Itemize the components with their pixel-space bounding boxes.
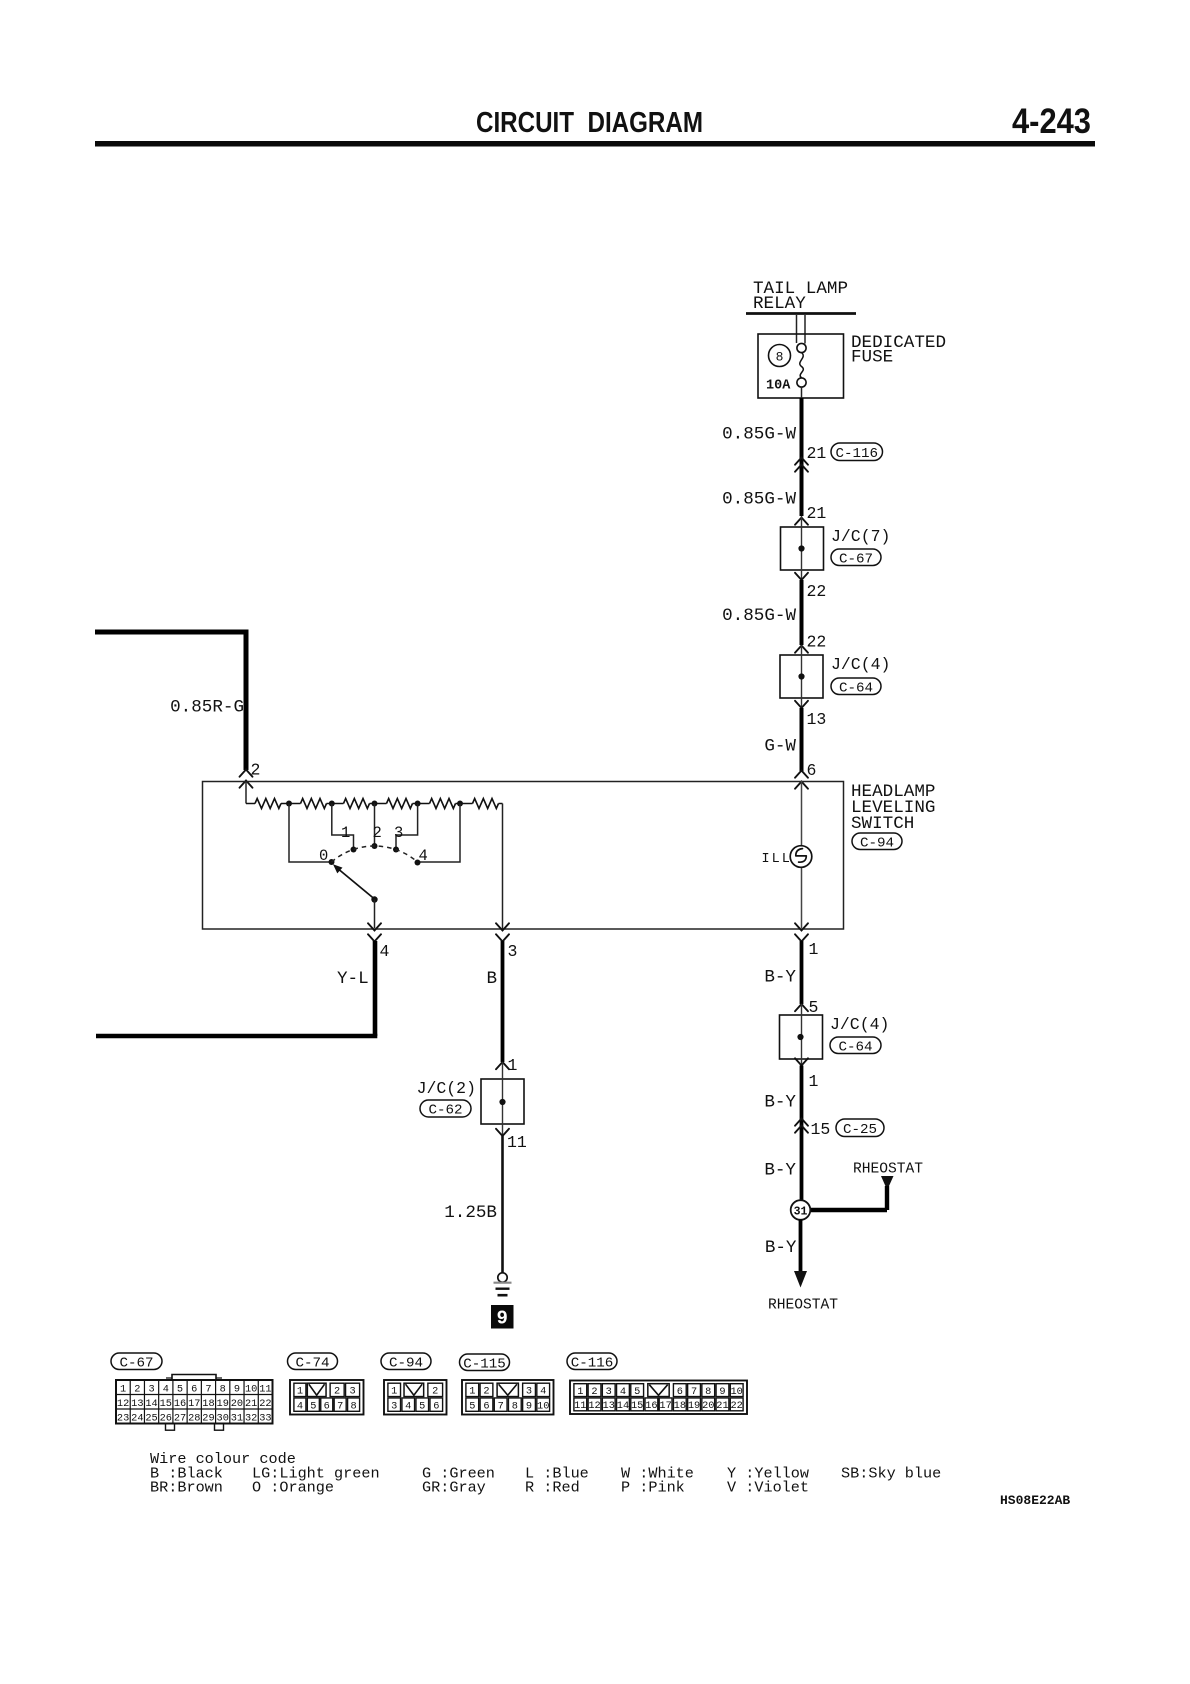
svg-text:J/C(7): J/C(7) bbox=[831, 527, 890, 546]
junction chevron into J/C(4) second bbox=[795, 1004, 808, 1011]
svg-text:1: 1 bbox=[469, 1386, 475, 1398]
svg-text:7: 7 bbox=[205, 1383, 211, 1395]
wire B-Y below switch bbox=[800, 941, 804, 1004]
svg-text:4: 4 bbox=[380, 942, 390, 961]
node dot 5 bbox=[457, 801, 463, 807]
wire B down bbox=[501, 941, 505, 1062]
rheostat feed arrow bbox=[809, 1176, 894, 1210]
junction chevron into J/C(4) bbox=[795, 646, 808, 653]
splice circle 31 bbox=[791, 1200, 811, 1220]
contact 1 bbox=[341, 824, 357, 853]
svg-text:8: 8 bbox=[350, 1400, 356, 1412]
svg-text:13: 13 bbox=[807, 710, 827, 729]
svg-text:3: 3 bbox=[148, 1383, 154, 1395]
svg-text:O :Orange: O :Orange bbox=[252, 1479, 334, 1497]
svg-text:14: 14 bbox=[145, 1398, 157, 1410]
svg-text:B-Y: B-Y bbox=[765, 1238, 797, 1258]
svg-text:8: 8 bbox=[220, 1383, 226, 1395]
svg-text:C-94: C-94 bbox=[860, 835, 894, 851]
wire node1 to contact 0 bbox=[289, 804, 329, 863]
pin 4 exit chevrons bbox=[368, 923, 381, 941]
wire node3 to contact 2 bbox=[374, 804, 376, 845]
svg-text:25: 25 bbox=[145, 1412, 157, 1424]
svg-text:1: 1 bbox=[508, 1056, 518, 1075]
svg-text:8: 8 bbox=[512, 1400, 518, 1412]
junction chevron into J/C(2) bbox=[496, 1062, 509, 1069]
svg-text:29: 29 bbox=[202, 1412, 214, 1424]
svg-text:2: 2 bbox=[134, 1383, 140, 1395]
wire node5 to contact 4 bbox=[420, 804, 460, 863]
dashed selector arc bbox=[332, 846, 418, 862]
pin 6 entry chevrons bbox=[795, 771, 808, 789]
pin 2 entry chevrons bbox=[240, 770, 253, 788]
tail lamp relay label bbox=[753, 279, 848, 314]
junction chevron out of J/C(7) bbox=[795, 573, 808, 580]
svg-text:ILL: ILL bbox=[762, 852, 792, 867]
svg-text:6: 6 bbox=[191, 1383, 197, 1395]
in-line connector C-116 double chevron bbox=[795, 458, 808, 472]
svg-text:18: 18 bbox=[202, 1398, 214, 1410]
svg-text:P :Pink: P :Pink bbox=[621, 1479, 685, 1497]
connector tag C-62 bbox=[420, 1100, 471, 1119]
svg-text:RELAY: RELAY bbox=[753, 294, 806, 314]
svg-text:26: 26 bbox=[160, 1412, 172, 1424]
svg-text:C-25: C-25 bbox=[843, 1122, 877, 1138]
svg-text:6: 6 bbox=[324, 1400, 330, 1412]
svg-text:6: 6 bbox=[483, 1400, 489, 1412]
svg-text:8: 8 bbox=[776, 350, 784, 365]
connector tag C-64 bbox=[831, 678, 881, 696]
contact 3 bbox=[393, 824, 403, 853]
svg-text:J/C(2): J/C(2) bbox=[417, 1079, 476, 1098]
svg-text:B-Y: B-Y bbox=[764, 968, 796, 988]
wire J/C(4) to switch, G-W bbox=[800, 708, 804, 771]
svg-text:B-Y: B-Y bbox=[764, 1093, 796, 1113]
svg-text:22: 22 bbox=[807, 633, 827, 652]
wire pin6 through ILL lamp bbox=[801, 781, 803, 928]
resistor R4 bbox=[387, 799, 430, 809]
svg-text:20: 20 bbox=[231, 1398, 243, 1410]
svg-text:15: 15 bbox=[160, 1398, 172, 1410]
connector tag C-25 bbox=[836, 1119, 884, 1138]
headlamp leveling switch box bbox=[203, 782, 844, 930]
wiper pivot dot bbox=[371, 896, 377, 902]
junction chevron out of J/C(2) bbox=[496, 1129, 509, 1136]
wire node2 to contact 1 bbox=[332, 804, 354, 848]
svg-text:4: 4 bbox=[620, 1386, 626, 1398]
dedicated fuse box bbox=[758, 334, 844, 398]
svg-text:1: 1 bbox=[391, 1386, 397, 1398]
svg-text:5: 5 bbox=[469, 1400, 475, 1412]
svg-text:15: 15 bbox=[811, 1120, 831, 1139]
connector C-94 pinout bbox=[381, 1353, 447, 1415]
svg-text:9: 9 bbox=[496, 1308, 507, 1330]
svg-text:C-116: C-116 bbox=[571, 1355, 614, 1371]
svg-text:21: 21 bbox=[807, 504, 827, 523]
svg-text:17: 17 bbox=[188, 1398, 200, 1410]
pin 1 exit chevrons bbox=[795, 923, 808, 941]
relay pin stub right bbox=[804, 315, 806, 344]
svg-text:21: 21 bbox=[716, 1400, 728, 1412]
svg-text:22: 22 bbox=[731, 1400, 743, 1412]
svg-text:B: B bbox=[487, 969, 498, 989]
svg-text:22: 22 bbox=[259, 1398, 271, 1410]
wire Y-L to left bbox=[96, 941, 377, 1036]
svg-text:0: 0 bbox=[319, 847, 328, 865]
svg-text:8: 8 bbox=[705, 1386, 711, 1398]
wire 0.85R-G feed from left bbox=[95, 630, 249, 771]
svg-text:31: 31 bbox=[231, 1412, 243, 1424]
junction chevron out of J/C(4) bbox=[795, 701, 808, 708]
svg-text:HS08E22AB: HS08E22AB bbox=[1000, 1493, 1070, 1508]
svg-text:11: 11 bbox=[259, 1383, 271, 1395]
svg-text:31: 31 bbox=[794, 1206, 808, 1219]
wiper arm with arrowhead bbox=[333, 864, 375, 899]
svg-text:16: 16 bbox=[174, 1398, 186, 1410]
svg-text:3: 3 bbox=[508, 942, 518, 961]
svg-text:7: 7 bbox=[337, 1400, 343, 1412]
svg-text:3: 3 bbox=[394, 824, 403, 842]
svg-text:22: 22 bbox=[807, 582, 827, 601]
svg-text:2: 2 bbox=[432, 1386, 438, 1398]
svg-text:10: 10 bbox=[245, 1383, 257, 1395]
wire B-Y to C-25 bbox=[800, 1066, 804, 1202]
junction connector J/C(7) box bbox=[781, 516, 824, 580]
svg-text:12: 12 bbox=[117, 1398, 129, 1410]
svg-text:J/C(4): J/C(4) bbox=[830, 1015, 889, 1034]
node dot 4 bbox=[415, 801, 421, 807]
svg-text:C-64: C-64 bbox=[839, 680, 873, 696]
svg-text:C-67: C-67 bbox=[119, 1355, 153, 1371]
svg-text:SWITCH: SWITCH bbox=[851, 814, 914, 834]
svg-text:B-Y: B-Y bbox=[764, 1161, 796, 1181]
svg-text:15: 15 bbox=[631, 1400, 643, 1412]
svg-text:1: 1 bbox=[341, 824, 350, 842]
svg-text:33: 33 bbox=[259, 1412, 271, 1424]
svg-text:9: 9 bbox=[719, 1386, 725, 1398]
svg-text:9: 9 bbox=[234, 1383, 240, 1395]
node dot 1 bbox=[286, 801, 292, 807]
svg-text:20: 20 bbox=[702, 1400, 714, 1412]
svg-text:28: 28 bbox=[188, 1412, 200, 1424]
svg-text:24: 24 bbox=[131, 1412, 143, 1424]
connector C-67 pinout bbox=[111, 1353, 273, 1430]
svg-text:Y-L: Y-L bbox=[337, 969, 369, 989]
fuse number circle 8 bbox=[769, 345, 791, 367]
svg-text:17: 17 bbox=[659, 1400, 671, 1412]
svg-text:RHEOSTAT: RHEOSTAT bbox=[853, 1162, 923, 1178]
svg-text:2: 2 bbox=[591, 1386, 597, 1398]
DEDICATED FUSE label bbox=[851, 333, 946, 368]
svg-text:7: 7 bbox=[691, 1386, 697, 1398]
svg-text:3: 3 bbox=[606, 1386, 612, 1398]
contact 0 bbox=[319, 847, 335, 865]
svg-text:6: 6 bbox=[433, 1400, 439, 1412]
svg-text:21: 21 bbox=[807, 444, 827, 463]
svg-text:4: 4 bbox=[163, 1383, 169, 1395]
tail lamp relay bus bar bbox=[746, 312, 856, 315]
connector tag C-64 second bbox=[830, 1037, 881, 1055]
svg-text:3: 3 bbox=[391, 1400, 397, 1412]
svg-text:C-116: C-116 bbox=[835, 446, 878, 462]
relay pin stub left bbox=[796, 315, 798, 343]
svg-text:11: 11 bbox=[507, 1133, 527, 1152]
resistor R2 bbox=[301, 799, 344, 809]
svg-text:GR:Gray: GR:Gray bbox=[422, 1479, 486, 1497]
svg-text:C-67: C-67 bbox=[839, 551, 873, 567]
connector tag C-116 bbox=[831, 443, 883, 462]
svg-text:6: 6 bbox=[677, 1386, 683, 1398]
connector tag C-67 bbox=[831, 549, 881, 567]
svg-text:10A: 10A bbox=[766, 379, 791, 394]
svg-text:R :Red: R :Red bbox=[525, 1479, 580, 1497]
svg-text:19: 19 bbox=[217, 1398, 229, 1410]
wire B-Y to rheostat bbox=[794, 1220, 807, 1288]
connector C-116 pinout bbox=[567, 1353, 747, 1414]
svg-text:1.25B: 1.25B bbox=[444, 1203, 497, 1223]
wire colour code legend bbox=[150, 1450, 941, 1497]
svg-text:0.85G-W: 0.85G-W bbox=[722, 425, 796, 445]
header rule bbox=[95, 141, 1095, 147]
node dot 3 bbox=[372, 801, 378, 807]
svg-text:10: 10 bbox=[731, 1386, 743, 1398]
fuse element bbox=[797, 343, 806, 387]
svg-text:4: 4 bbox=[540, 1386, 546, 1398]
wire fuse to J/C(7), G-W feed bbox=[800, 398, 804, 516]
resistor R5 bbox=[430, 799, 473, 809]
node dot 2 bbox=[329, 801, 335, 807]
wire fuse to box edge bbox=[801, 387, 803, 399]
connector C-74 pinout bbox=[288, 1353, 364, 1415]
ground symbol bbox=[494, 1273, 512, 1295]
svg-text:C-64: C-64 bbox=[838, 1039, 872, 1055]
ILL lamp symbol bbox=[790, 846, 812, 868]
svg-text:13: 13 bbox=[603, 1400, 615, 1412]
svg-text:1: 1 bbox=[809, 940, 819, 959]
svg-text:27: 27 bbox=[174, 1412, 186, 1424]
svg-text:4: 4 bbox=[297, 1400, 303, 1412]
in-line connector C-25 double chevron bbox=[795, 1119, 808, 1133]
svg-text:0.85G-W: 0.85G-W bbox=[722, 490, 796, 510]
wire 1.25B to ground bbox=[501, 1136, 504, 1273]
junction connector J/C(4) second box bbox=[780, 1004, 823, 1066]
svg-text:CIRCUIT DIAGRAM: CIRCUIT DIAGRAM bbox=[476, 107, 703, 139]
svg-text:13: 13 bbox=[131, 1398, 143, 1410]
svg-text:V :Violet: V :Violet bbox=[727, 1479, 809, 1497]
resistor R6 bbox=[473, 799, 503, 809]
svg-text:3: 3 bbox=[349, 1386, 355, 1398]
svg-text:BR:Brown: BR:Brown bbox=[150, 1479, 223, 1497]
resistor R3 bbox=[344, 799, 387, 809]
svg-text:C-115: C-115 bbox=[463, 1356, 506, 1372]
svg-text:23: 23 bbox=[117, 1412, 129, 1424]
svg-text:32: 32 bbox=[245, 1412, 257, 1424]
svg-text:12: 12 bbox=[588, 1400, 600, 1412]
pin 3 exit chevrons bbox=[496, 923, 509, 941]
ground reference 9 bbox=[491, 1305, 514, 1330]
svg-text:9: 9 bbox=[526, 1400, 532, 1412]
junction chevron into J/C(7) bbox=[795, 518, 808, 525]
wire pin2 to resistor chain bbox=[245, 781, 247, 804]
svg-text:3: 3 bbox=[526, 1386, 532, 1398]
svg-text:7: 7 bbox=[498, 1400, 504, 1412]
HEADLAMP LEVELING SWITCH label bbox=[851, 782, 935, 834]
svg-text:14: 14 bbox=[617, 1400, 629, 1412]
wire chain end to pin 3 bbox=[502, 804, 504, 930]
svg-text:2: 2 bbox=[483, 1386, 489, 1398]
svg-text:30: 30 bbox=[217, 1412, 229, 1424]
contact 4 bbox=[415, 847, 428, 866]
svg-text:0.85G-W: 0.85G-W bbox=[722, 606, 796, 626]
svg-text:1: 1 bbox=[809, 1072, 819, 1091]
connector tag C-94 bbox=[852, 833, 902, 851]
svg-text:18: 18 bbox=[674, 1400, 686, 1412]
contact 2 bbox=[372, 824, 382, 849]
wire J/C(7) to J/C(4) bbox=[800, 580, 804, 645]
svg-text:1: 1 bbox=[120, 1383, 126, 1395]
junction connector J/C(4) box bbox=[780, 646, 823, 709]
svg-text:19: 19 bbox=[688, 1400, 700, 1412]
svg-text:5: 5 bbox=[310, 1400, 316, 1412]
svg-text:16: 16 bbox=[645, 1400, 657, 1412]
svg-text:C-62: C-62 bbox=[428, 1103, 462, 1119]
svg-text:5: 5 bbox=[809, 998, 819, 1017]
svg-text:0.85R-G: 0.85R-G bbox=[170, 698, 244, 718]
junction connector J/C(2) box bbox=[481, 1062, 524, 1136]
svg-text:5: 5 bbox=[419, 1400, 425, 1412]
svg-text:G-W: G-W bbox=[764, 737, 796, 757]
svg-text:21: 21 bbox=[245, 1398, 257, 1410]
svg-text:5: 5 bbox=[177, 1383, 183, 1395]
connector C-115 pinout bbox=[460, 1354, 554, 1415]
svg-text:2: 2 bbox=[334, 1386, 340, 1398]
svg-text:1: 1 bbox=[297, 1386, 303, 1398]
svg-text:4-243: 4-243 bbox=[1012, 102, 1091, 141]
resistor R1 bbox=[246, 799, 301, 809]
svg-text:4: 4 bbox=[405, 1400, 411, 1412]
svg-text:11: 11 bbox=[574, 1400, 586, 1412]
svg-text:RHEOSTAT: RHEOSTAT bbox=[768, 1298, 838, 1314]
svg-text:5: 5 bbox=[634, 1386, 640, 1398]
wire pivot to pin 4 bbox=[374, 900, 376, 929]
svg-text:4: 4 bbox=[419, 847, 428, 865]
svg-text:FUSE: FUSE bbox=[851, 348, 893, 368]
svg-text:J/C(4): J/C(4) bbox=[831, 655, 890, 674]
junction chevron out of J/C(4) second bbox=[795, 1058, 808, 1065]
svg-text:1: 1 bbox=[577, 1386, 583, 1398]
wire node4 to contact 3 bbox=[396, 804, 418, 848]
svg-text:C-94: C-94 bbox=[389, 1355, 423, 1371]
svg-text:10: 10 bbox=[537, 1400, 549, 1412]
svg-text:C-74: C-74 bbox=[295, 1355, 329, 1371]
svg-text:SB:Sky blue: SB:Sky blue bbox=[841, 1465, 941, 1483]
svg-text:2: 2 bbox=[373, 824, 382, 842]
